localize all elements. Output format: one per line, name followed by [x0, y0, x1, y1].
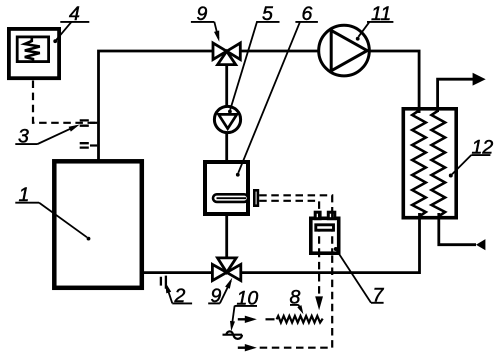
- valve 9 bottom right triangle: [227, 264, 241, 280]
- label 9 bottom: [208, 285, 221, 307]
- wire top-left pipe from node to valve 9: [99, 51, 214, 160]
- label 7: [371, 284, 385, 306]
- terminal 3 lower bars: [80, 143, 89, 147]
- label 8: [290, 286, 301, 308]
- wire bottom pipe valve 9 to tank 1: [144, 271, 212, 274]
- wire heat exchanger outlet with arrow: [438, 73, 486, 112]
- label 1: [15, 184, 39, 206]
- drain symbol 10: [223, 331, 243, 339]
- label 2 leader with arrow: [165, 282, 172, 303]
- label 5 leader: [228, 22, 257, 114]
- wire top pipe valve 9 to pump 11: [240, 50, 319, 53]
- label 2: [172, 285, 192, 307]
- fitting 2 ticks: [161, 276, 166, 289]
- flow arrow into heater 8 row: [238, 316, 275, 323]
- control unit 4 spring element: [25, 37, 40, 63]
- heater unit 6 plug: [254, 190, 258, 205]
- label 4 leader: [53, 22, 71, 43]
- label 10: [235, 287, 259, 309]
- heater unit 6 box: [205, 162, 248, 214]
- control unit 4 inner box: [17, 37, 48, 62]
- label 3 leader with arrow: [38, 125, 80, 145]
- terminal 3 upper bars: [80, 120, 89, 125]
- heat exchanger 12 right coil: [432, 111, 446, 217]
- heater element 8 zigzag: [277, 316, 323, 323]
- heater unit 6 element capsule: [213, 194, 248, 202]
- label 6: [295, 3, 318, 25]
- wire heat exchanger 12 left coil down to bottom pipe: [241, 213, 420, 273]
- label 6 leader: [236, 22, 300, 177]
- wire heater unit 6 to bottom valve 9: [225, 216, 228, 258]
- valve 9 top left triangle: [213, 43, 227, 60]
- capillary dashed line from heater plug to sensor 7 left prong with down arrow: [259, 201, 323, 310]
- label 11: [367, 3, 393, 25]
- label 3: [15, 126, 37, 148]
- valve 9 bottom left triangle: [212, 264, 226, 280]
- sensor 7 body: [311, 218, 339, 253]
- label 9 top leader with arrow: [214, 22, 219, 42]
- wire valve 9 top to pump 5: [225, 65, 228, 107]
- label 12 leader: [449, 155, 472, 178]
- pump 11 circle: [319, 25, 370, 76]
- tank 1: [54, 161, 142, 287]
- control unit 4 outer box: [9, 29, 59, 78]
- label 12: [471, 137, 493, 159]
- pump 11 triangle: [331, 30, 367, 70]
- wire pump 5 to heater unit 6: [225, 132, 228, 160]
- valve 9 bottom top triangle: [218, 258, 237, 273]
- label 9 top: [191, 3, 214, 25]
- pump 5 circle: [214, 106, 240, 132]
- control line dashed from unit 4 to terminals 3: [33, 81, 97, 123]
- pump 5 triangle: [219, 114, 237, 128]
- label 9 bottom leader with arrow: [220, 278, 232, 304]
- label 8 leader with arrow: [297, 305, 303, 315]
- valve 9 top bottom triangle: [218, 51, 236, 64]
- control line stub upper terminal to pipe: [90, 122, 97, 124]
- label 1 leader: [39, 203, 90, 241]
- heat exchanger 12 left coil: [412, 111, 426, 217]
- label 5: [256, 3, 279, 25]
- label 7 leader: [334, 247, 371, 303]
- sensor 7 dashed lines through body: [319, 212, 332, 253]
- wire heat exchanger inlet with arrow: [439, 213, 486, 250]
- label 11 leader: [356, 22, 370, 41]
- control line stub lower terminal to pipe: [90, 144, 97, 146]
- flow arrow into bottom capillary row: [238, 344, 257, 351]
- label 4: [60, 3, 89, 25]
- sensor 7 inner bar: [316, 225, 334, 230]
- sensor 7 left prong: [315, 212, 320, 219]
- valve 9 top right triangle: [227, 43, 241, 60]
- label 10 leader with arrow: [230, 306, 235, 331]
- capillary dashed line from heater plug to sensor 7 right prong and bottom loop: [257, 195, 333, 347]
- sensor 7 right prong: [328, 212, 335, 219]
- heat exchanger 12 box: [403, 109, 456, 218]
- heater unit 6 element inner line: [217, 197, 247, 199]
- wire pump 11 to heat exchanger 12 top: [369, 51, 419, 113]
